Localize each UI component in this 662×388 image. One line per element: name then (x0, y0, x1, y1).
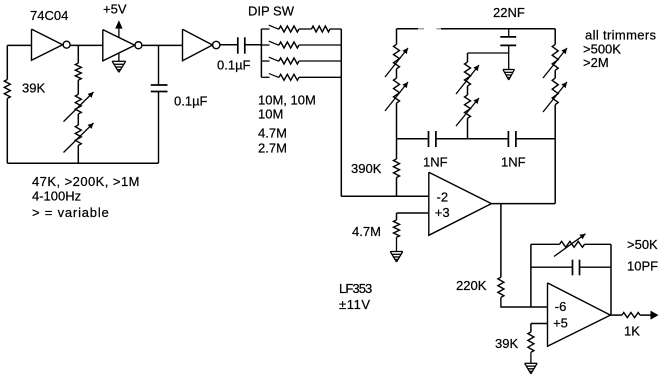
ground U1B (118, 53, 120, 61)
wire minus input opamp1 (341, 195, 429, 197)
switch SW1 (261, 28, 269, 30)
wire row3 to bus (299, 60, 341, 62)
svg-text:2.7M: 2.7M (258, 141, 287, 156)
resistor R6 39K (528, 332, 534, 352)
trimmer chain right: wire (554, 29, 556, 45)
wire U1C output (220, 44, 237, 46)
wire 220K bottom (501, 297, 548, 307)
wire (77, 114, 79, 125)
wire U1B output (142, 44, 183, 46)
trimmer TR1 (552, 44, 558, 70)
wire middle chain top (77, 45, 79, 63)
wire 390K bottom (396, 178, 398, 197)
resistor R5 220K (498, 277, 504, 297)
wire trimmer row left (531, 243, 560, 245)
capacitor C4 1NF (428, 131, 430, 147)
wire row1 mid (299, 28, 312, 30)
svg-text:+5V: +5V (103, 2, 127, 17)
wire 1NF row left (397, 138, 428, 140)
trimmer chain left: wire (396, 29, 398, 45)
wire 390K top (396, 139, 398, 159)
trimmer chain middle: wire (467, 53, 469, 62)
wire row4 to bus (299, 76, 341, 78)
capacitor C5 1NF (507, 131, 509, 147)
wire 220K vertical (500, 204, 502, 278)
svg-text:±11V: ±11V (339, 297, 371, 312)
svg-text:+5: +5 (553, 316, 568, 331)
wire 4.7M top (396, 213, 398, 220)
wire 1NF right (516, 138, 555, 140)
wire mid chain horizontal (468, 52, 509, 54)
svg-text:all trimmers: all trimmers (585, 28, 657, 43)
svg-text:4-100Hz: 4-100Hz (32, 189, 81, 204)
ground R4 (390, 251, 403, 253)
wire middle chain bottom (77, 145, 79, 163)
svg-text:LF353: LF353 (339, 281, 372, 296)
resistor row3 (279, 58, 299, 64)
wire right chain bottom (554, 105, 556, 139)
wire 22NF top right segment (437, 28, 442, 30)
wire 1NF mid (436, 138, 508, 140)
wire cap row right (580, 266, 612, 268)
svg-text:> = variable: > = variable (32, 205, 110, 220)
wire input to U1A (7, 44, 31, 46)
resistor row1 second 10M (312, 26, 331, 32)
trimmer VR3 >50K (560, 241, 585, 247)
svg-text:39K: 39K (495, 336, 518, 351)
wire 4.7M bottom (396, 237, 398, 251)
capacitor C1 0.1uF (158, 45, 160, 85)
wire opamp2 output (610, 314, 622, 316)
trimmer TR2 (552, 78, 558, 105)
svg-text:10M: 10M (258, 107, 283, 122)
resistor R4 4.7M (394, 220, 400, 237)
svg-text:10PF: 10PF (627, 259, 658, 274)
switch SW3 (261, 60, 269, 62)
svg-text:1NF: 1NF (501, 155, 526, 170)
inverter U1C (183, 29, 213, 60)
wire DIP left bus (260, 29, 262, 78)
resistor R3 390K (394, 159, 400, 178)
svg-text:1NF: 1NF (423, 155, 448, 170)
power arrow +5V (115, 20, 122, 28)
wire row2 to bus (299, 44, 341, 46)
wire cap row left (531, 266, 572, 268)
svg-text:0.1µF: 0.1µF (174, 94, 208, 109)
resistor R7 1K (622, 313, 640, 318)
svg-text:DIP SW: DIP SW (248, 4, 295, 19)
output arrow (651, 311, 659, 320)
svg-text:39K: 39K (22, 81, 45, 96)
capacitor C6 10PF (572, 260, 574, 276)
wire feedback vertical right (554, 139, 556, 204)
wire U1A output (70, 44, 103, 46)
wire feedback right vertical (610, 244, 612, 315)
wire (554, 70, 556, 78)
inverter U1B (103, 30, 135, 61)
svg-text:220K: 220K (456, 278, 487, 293)
trimmer TL2 (394, 78, 400, 103)
svg-text:>50K: >50K (627, 237, 658, 252)
svg-text:47K, >200K, >1M: 47K, >200K, >1M (32, 174, 140, 189)
ground C3 (503, 69, 515, 71)
trimmer TL1 (394, 44, 400, 68)
svg-text:+3: +3 (435, 205, 450, 220)
wire left vertical (6, 45, 8, 79)
wire left chain bottom (396, 103, 398, 139)
trimmer TM1 (465, 62, 471, 86)
resistor row1 (279, 26, 299, 32)
wire plus input opamp2 (531, 323, 548, 325)
resistor R1 39K (4, 80, 10, 99)
svg-text:-6: -6 (555, 299, 567, 314)
svg-text:390K: 390K (351, 161, 382, 176)
svg-text:>2M: >2M (583, 55, 609, 70)
resistor row2 (279, 42, 299, 48)
potentiometer VR1 >200K (75, 94, 81, 114)
capacitor C2 0.1uF series (237, 37, 239, 53)
svg-text:22NF: 22NF (493, 5, 525, 20)
switch SW2 (261, 44, 269, 46)
svg-text:4.7M: 4.7M (258, 126, 287, 141)
wire row1 to bus (330, 28, 341, 30)
ground R6 (525, 362, 538, 364)
wire trimmer row right (585, 243, 612, 245)
resistor row4 (279, 74, 299, 80)
wire feedback left vertical (530, 244, 532, 307)
svg-text:74C04: 74C04 (30, 8, 68, 23)
op-amp U2A (429, 172, 492, 235)
trimmer TM2 (465, 95, 471, 118)
wire mid chain bottom (467, 118, 469, 139)
svg-text:-2: -2 (437, 190, 449, 205)
wire (396, 69, 398, 78)
wire 39K top (530, 324, 532, 332)
wire opamp1 output (491, 203, 555, 205)
svg-text:10M, 10M: 10M, 10M (258, 93, 316, 108)
capacitor C3 22NF (508, 29, 510, 37)
wire (77, 80, 79, 94)
wire bottom rail (7, 162, 158, 164)
potentiometer VR2 >1M (75, 125, 81, 145)
switch SW4 (261, 76, 269, 78)
svg-text:1K: 1K (624, 324, 640, 339)
wire output (640, 314, 651, 316)
wire plus input opamp1 (397, 212, 429, 214)
wire 22NF top left segment (397, 28, 419, 30)
wire DIP right bus (340, 29, 342, 196)
inverter U1A (32, 29, 63, 60)
svg-text:0.1µF: 0.1µF (217, 58, 251, 73)
resistor R2 fixed 47K (75, 63, 81, 80)
svg-text:4.7M: 4.7M (352, 224, 381, 239)
wire (467, 86, 469, 95)
wire 39K bottom (530, 352, 532, 363)
op-amp U2B (548, 283, 611, 346)
